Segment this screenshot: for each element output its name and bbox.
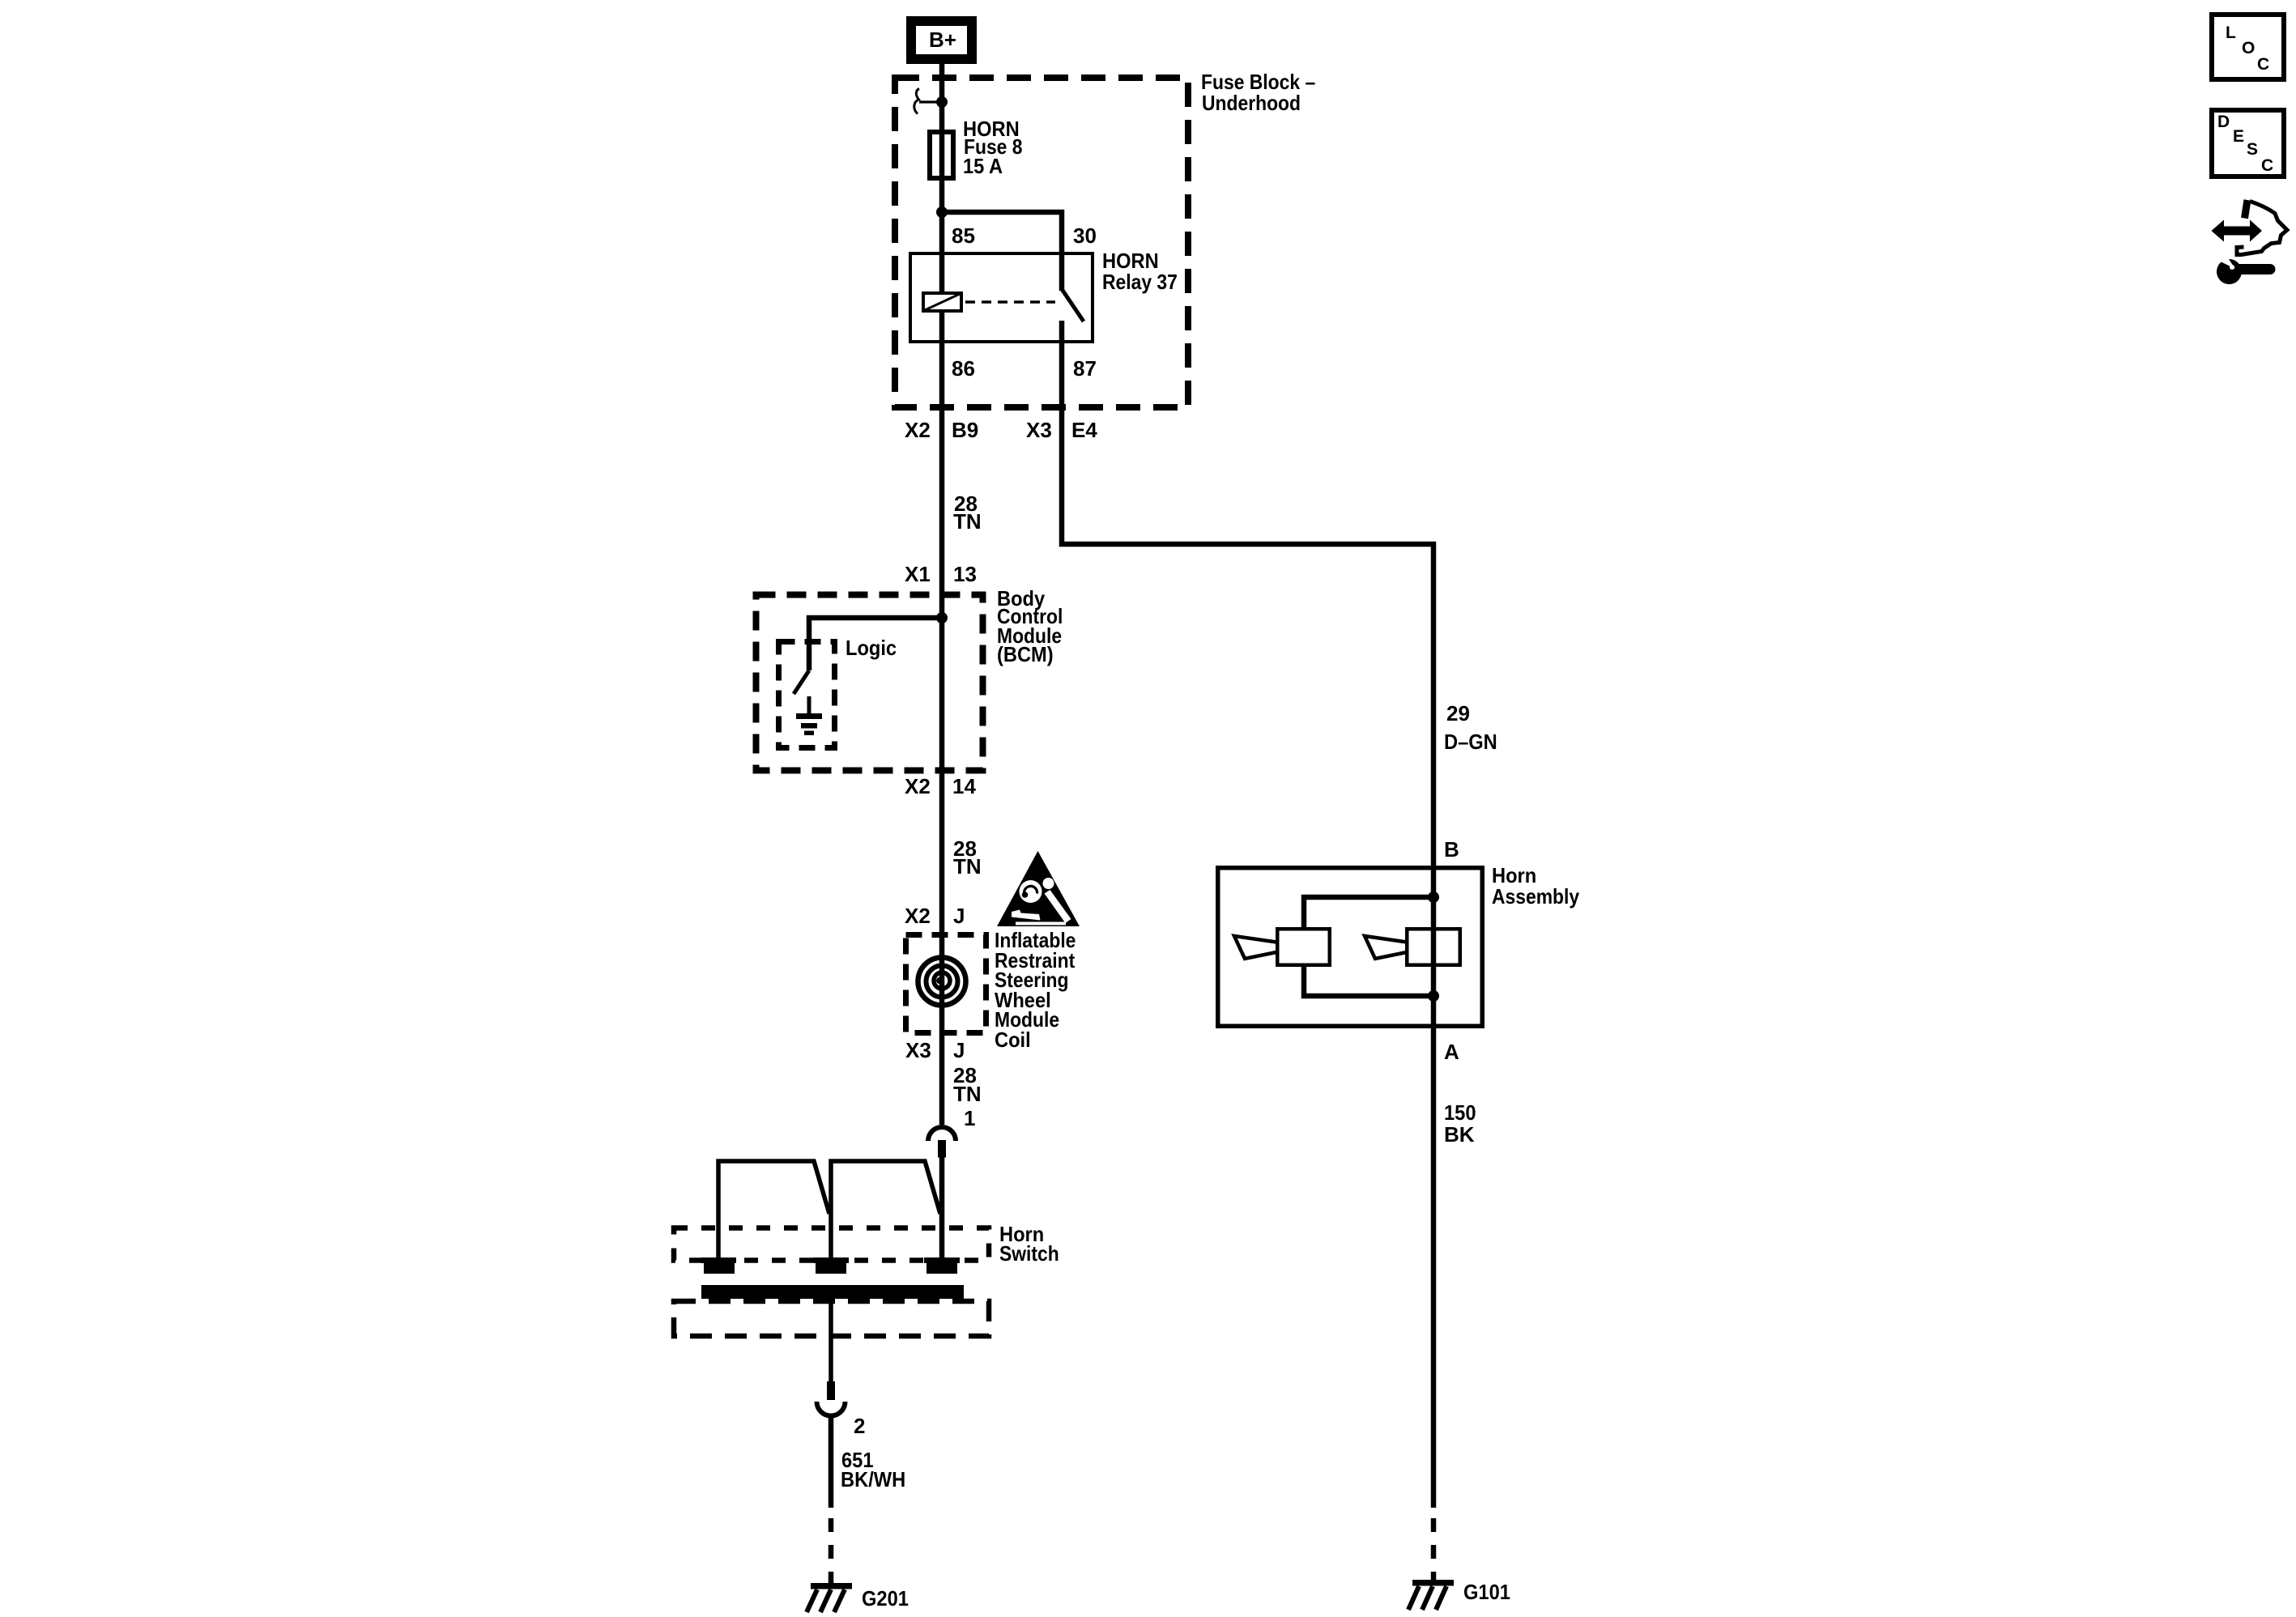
svg-text:Coil: Coil <box>995 1028 1031 1052</box>
relay switch blade <box>1062 289 1084 321</box>
svg-text:86: 86 <box>952 356 975 381</box>
svg-text:G201: G201 <box>862 1586 909 1611</box>
node: junction dot top inside horn assembly <box>1428 891 1439 903</box>
node: junction dot inside BCM <box>936 612 948 623</box>
svg-text:Assembly: Assembly <box>1492 884 1580 908</box>
svg-text:87: 87 <box>1073 356 1097 381</box>
node: junction dot bottom inside horn assembly <box>1428 990 1439 1002</box>
svg-text:D: D <box>2217 113 2230 131</box>
body control module BCM dashed box <box>756 595 983 771</box>
svg-text:Underhood: Underhood <box>1202 91 1301 115</box>
LOC box <box>2212 15 2284 79</box>
left horn trumpet <box>1234 936 1276 959</box>
inflatable restraint steering wheel module coil dashed box <box>906 935 986 1033</box>
horn assembly box <box>1218 868 1483 1027</box>
svg-text:E4: E4 <box>1071 418 1097 442</box>
svg-text:B+: B+ <box>929 28 956 52</box>
wire relay pin 87 down and across to horn assembly <box>1062 321 1433 866</box>
horn switch contact right <box>924 1261 960 1274</box>
wire junction to relay pin 30 <box>942 212 1062 291</box>
svg-text:14: 14 <box>952 774 976 798</box>
svg-text:150: 150 <box>1444 1100 1476 1125</box>
svg-text:X3: X3 <box>905 1038 931 1062</box>
connector 2: female half <box>817 1402 846 1416</box>
DESC box <box>2212 110 2284 177</box>
svg-text:X3: X3 <box>1026 418 1052 442</box>
wire BCM internal to logic switch <box>809 618 942 670</box>
svg-text:Logic: Logic <box>846 636 897 660</box>
svg-text:2: 2 <box>854 1414 865 1438</box>
relay K37 box <box>910 253 1093 342</box>
fuse HORN Fuse 8 15A <box>930 132 953 178</box>
svg-text:S: S <box>2247 140 2258 159</box>
dashed wire to G101 <box>1431 1518 1437 1580</box>
svg-text:L: L <box>2226 23 2236 42</box>
relay actuating dashed link <box>965 300 1055 304</box>
svg-text:X1: X1 <box>905 562 931 586</box>
horn switch dashed box <box>674 1228 989 1261</box>
svg-text:D–GN: D–GN <box>1444 730 1497 754</box>
svg-text:C: C <box>2257 55 2269 74</box>
svg-text:J: J <box>953 1038 965 1062</box>
BCM internal switch blade <box>794 670 809 694</box>
left horn coil box <box>1277 929 1330 965</box>
horn switch contact middle <box>813 1261 849 1274</box>
wire right horn through to pin A <box>1431 866 1437 1508</box>
wire left horn to bottom bus <box>1304 967 1433 996</box>
wire B+ down through fuse to junction node <box>939 64 945 212</box>
wire pin to horn switch right contact <box>939 1157 945 1257</box>
fuse block underhood dashed box <box>895 78 1188 407</box>
clockspring coil spiral <box>918 958 966 1006</box>
svg-text:TN: TN <box>953 509 982 534</box>
svg-text:X2: X2 <box>905 904 931 928</box>
svg-text:C: C <box>2261 156 2273 175</box>
ground G101 <box>1408 1580 1454 1610</box>
fusible element curl at fuse feed <box>914 89 919 114</box>
svg-text:X2: X2 <box>905 774 931 798</box>
wire relay coil pin 86 down to BCM <box>939 313 945 1125</box>
svg-text:TN: TN <box>953 1082 982 1106</box>
svg-text:TN: TN <box>953 854 982 879</box>
svg-text:15 A: 15 A <box>963 154 1003 178</box>
dashed wire to G201 <box>829 1518 834 1583</box>
horn switch blade left <box>718 1161 829 1257</box>
relay coil <box>923 293 961 311</box>
svg-text:(BCM): (BCM) <box>997 642 1054 666</box>
svg-text:G101: G101 <box>1463 1580 1510 1604</box>
battery feed terminal B+ <box>906 16 977 64</box>
node: junction dot at relay feed split <box>936 206 948 218</box>
svg-text:1: 1 <box>964 1106 975 1130</box>
svg-text:A: A <box>1444 1040 1459 1064</box>
svg-text:13: 13 <box>953 562 977 586</box>
wire connector to ground <box>829 1416 834 1508</box>
svg-text:30: 30 <box>1073 223 1097 248</box>
ground G201 <box>807 1583 852 1612</box>
horn switch common bar <box>701 1285 964 1299</box>
service action icon: double arrow, outline arrow, wrench <box>2212 200 2288 284</box>
svg-text:BK: BK <box>1444 1122 1475 1147</box>
horn switch contact left <box>701 1261 736 1274</box>
svg-text:B: B <box>1444 837 1459 862</box>
svg-text:E: E <box>2233 127 2244 146</box>
connector 1: male pin <box>938 1140 946 1158</box>
svg-text:J: J <box>953 904 965 928</box>
svg-text:29: 29 <box>1446 701 1470 726</box>
connector 2: male pin <box>827 1381 835 1400</box>
node: junction dot above fuse <box>936 96 948 108</box>
wire to left horn <box>1304 897 1433 927</box>
BCM internal ground <box>796 696 822 735</box>
wire junction down to relay coil <box>939 212 945 291</box>
right horn trumpet <box>1365 936 1407 959</box>
horn switch blade middle <box>831 1161 940 1257</box>
steering wheel pad dashed box <box>674 1301 989 1336</box>
svg-text:BK/WH: BK/WH <box>841 1467 905 1491</box>
wire bar down to connector 2 <box>829 1299 833 1381</box>
svg-text:Switch: Switch <box>999 1241 1059 1266</box>
svg-text:O: O <box>2242 39 2255 57</box>
SIR caution triangle <box>997 851 1080 926</box>
svg-text:B9: B9 <box>952 418 978 442</box>
svg-text:X2: X2 <box>905 418 931 442</box>
right horn coil box <box>1407 929 1460 965</box>
logic dashed box <box>779 642 835 748</box>
svg-text:Relay 37: Relay 37 <box>1102 270 1178 294</box>
svg-text:85: 85 <box>952 223 975 248</box>
connector 1: female half <box>928 1127 956 1141</box>
